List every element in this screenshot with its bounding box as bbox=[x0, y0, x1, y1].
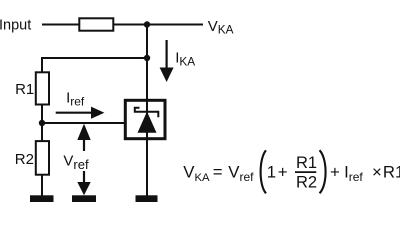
svg-text:+: + bbox=[330, 163, 340, 182]
ground bar under R2 bbox=[30, 195, 54, 202]
junction dot ref node bbox=[39, 120, 45, 126]
junction dot at cathode node bbox=[144, 21, 150, 27]
formula right parenthesis bbox=[320, 150, 326, 193]
formula VKA equation bbox=[183, 150, 400, 193]
svg-text:R1: R1 bbox=[296, 154, 317, 172]
wire R2 bottom to ground bbox=[41, 176, 43, 196]
resistor R1 bbox=[36, 72, 49, 104]
svg-text:R2: R2 bbox=[15, 151, 34, 168]
wire Input to series resistor bbox=[42, 24, 79, 26]
svg-text:Input: Input bbox=[0, 18, 31, 34]
formula left parenthesis bbox=[261, 150, 266, 193]
current arrow Iref bbox=[56, 112, 92, 114]
current arrow IKA bbox=[166, 40, 168, 69]
voltage arrow Vref (up head) bbox=[77, 124, 90, 140]
resistor series (top, unlabeled) bbox=[79, 18, 113, 30]
wire R1 bottom to ref node bbox=[41, 105, 43, 124]
U1 internal triangle (anode) bbox=[138, 112, 157, 133]
svg-text:×: × bbox=[372, 163, 382, 182]
svg-text:+: + bbox=[278, 163, 288, 182]
ground bar under Vref arrow bbox=[72, 195, 96, 202]
wire junction to R1 top corner bbox=[42, 58, 147, 72]
svg-text:1: 1 bbox=[267, 163, 276, 182]
svg-text:R1: R1 bbox=[15, 81, 34, 98]
voltage arrow Vref (down head) bbox=[83, 171, 85, 184]
svg-text:=: = bbox=[213, 163, 223, 182]
wire resistor to VKA terminal bbox=[114, 24, 203, 26]
wire ref node to U1 ref pin bbox=[42, 122, 125, 124]
U1 internal cathode bar (zener) bbox=[135, 108, 159, 117]
resistor R2 bbox=[36, 141, 49, 175]
svg-text:R1: R1 bbox=[383, 163, 400, 182]
ground bar under U1 bbox=[136, 195, 158, 202]
wire ref node down to R2 bbox=[41, 123, 43, 141]
svg-text:R2: R2 bbox=[296, 173, 317, 191]
junction dot at R1 branch bbox=[144, 55, 150, 61]
formula fraction bar bbox=[295, 171, 316, 173]
op-amp U1 shunt regulator box bbox=[125, 100, 165, 138]
wire cathode node down through U1 to ground bbox=[146, 25, 148, 196]
